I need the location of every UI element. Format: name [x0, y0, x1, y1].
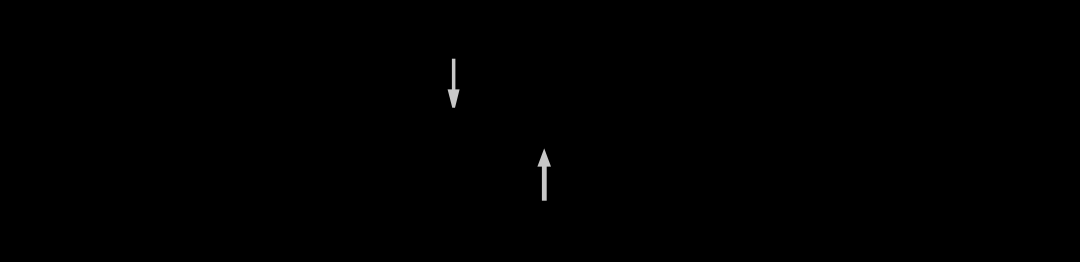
down arrow (shaft): [452, 59, 456, 90]
up arrow (head): [537, 148, 551, 166]
up arrow (shaft): [542, 166, 547, 201]
down arrow (head): [448, 89, 460, 107]
